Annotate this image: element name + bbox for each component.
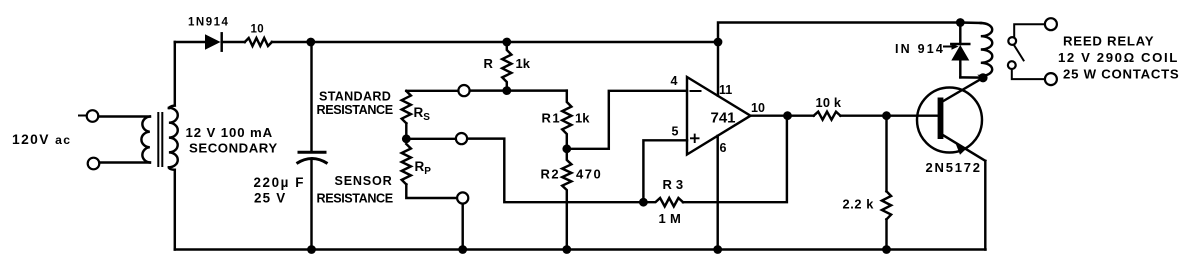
svg-text:10: 10 <box>751 101 765 115</box>
svg-text:IN 914: IN 914 <box>895 42 945 56</box>
junction output node <box>783 111 792 120</box>
transistor Q1 body circle <box>917 88 982 153</box>
svg-text:R: R <box>484 56 494 71</box>
wire capacitor bottom lead <box>310 159 312 250</box>
transformer T1 secondary winding <box>169 106 178 170</box>
arrow to diode <box>944 43 959 49</box>
junction top rail / pin11 riser <box>714 38 723 47</box>
resistor R3 1M <box>643 198 683 206</box>
wire primary bottom <box>100 161 151 163</box>
wire pin11 riser (top rail to op-amp) <box>717 42 719 96</box>
wire 2.2k top lead <box>885 116 887 192</box>
svg-text:10 k: 10 k <box>816 95 842 110</box>
wire RP bottom L to terminal <box>406 184 457 198</box>
wire op-amp output <box>751 114 814 116</box>
transistor Q1 emitter line with arrow <box>943 135 986 161</box>
capacitor C1 220uF <box>297 152 328 163</box>
resistor RP <box>402 144 411 184</box>
resistor 10 <box>245 38 272 46</box>
diode D1 1N914 <box>205 33 222 50</box>
wire left vertical bottom (secondary bottom to bottom rail) <box>174 170 176 250</box>
svg-text:4: 4 <box>671 74 678 88</box>
reed switch blade <box>1014 45 1024 61</box>
resistor R2 470 <box>562 149 571 250</box>
svg-text:2.2 k: 2.2 k <box>843 197 875 212</box>
reed switch bottom contact <box>1008 61 1016 69</box>
wire emitter to bottom rail <box>984 161 986 250</box>
junction R1/R2 node <box>562 144 571 153</box>
diode D2 1N914 <box>951 23 983 78</box>
junction collector/diode/coil <box>978 73 987 82</box>
wire pin5 riser <box>643 140 687 202</box>
op-amp U1 741 <box>687 77 751 155</box>
svg-text:1N914: 1N914 <box>188 16 229 28</box>
wire bottom rail <box>175 248 986 250</box>
wire top rail segment to diode <box>175 41 205 43</box>
op-amp minus sign <box>691 90 701 92</box>
svg-text:25 W CONTACTS: 25 W CONTACTS <box>1063 67 1179 82</box>
svg-text:R1: R1 <box>542 111 562 126</box>
transformer T1 core <box>158 113 162 166</box>
wire pin6 down to bottom rail <box>716 136 718 250</box>
wire mid terminal to R3 node <box>467 139 643 203</box>
svg-text:25 V: 25 V <box>254 191 286 206</box>
junction top rail / capacitor <box>306 38 315 47</box>
svg-text:6: 6 <box>720 141 727 155</box>
wire top rail (resistor 10 to op-amp corner) <box>272 41 718 43</box>
reed switch top terminal <box>1014 18 1057 36</box>
svg-text:1k: 1k <box>575 111 590 126</box>
wire left vertical top (secondary top to top rail) <box>174 42 176 106</box>
terminal standard top <box>458 85 469 96</box>
op-amp plus sign <box>690 134 700 143</box>
resistor R 1k <box>502 42 511 91</box>
svg-text:STANDARD: STANDARD <box>319 90 391 104</box>
resistor 10k <box>814 112 841 120</box>
wire terminal bottom to bottom rail <box>461 204 463 250</box>
wire RS-top terminal to R1 top (y=90.5 rail) <box>470 89 567 91</box>
svg-text:741: 741 <box>711 110 736 127</box>
terminal sensor bottom <box>457 192 468 203</box>
svg-text:R3: R3 <box>663 177 688 192</box>
svg-text:220µ F: 220µ F <box>254 175 306 190</box>
junction 2.2k / bottom rail <box>882 245 891 254</box>
resistor R1 1k <box>562 91 571 149</box>
junction base / 2.2k <box>882 111 891 120</box>
svg-text:SECONDARY: SECONDARY <box>189 141 278 156</box>
wire RS bottom to junction <box>405 123 407 139</box>
svg-text:REED RELAY: REED RELAY <box>1063 33 1154 48</box>
junction R2 / bottom rail <box>562 245 571 254</box>
junction top rail / resistor R <box>502 38 511 47</box>
terminal input top <box>79 110 98 122</box>
svg-text:2N5172: 2N5172 <box>926 160 982 175</box>
resistor 2.2k <box>882 191 891 219</box>
resistor RS <box>402 91 411 123</box>
svg-text:11: 11 <box>719 83 732 97</box>
svg-text:120V ac: 120V ac <box>12 132 71 147</box>
junction RS/RP node <box>402 134 411 143</box>
svg-text:1 M: 1 M <box>659 211 682 226</box>
svg-text:RESISTANCE: RESISTANCE <box>317 103 393 117</box>
svg-text:1k: 1k <box>516 56 531 71</box>
svg-text:12 V 100 mA: 12 V 100 mA <box>186 125 274 140</box>
reed switch bottom terminal <box>1012 69 1057 85</box>
transistor Q1 base bar <box>938 98 944 140</box>
wire R3 to output riser <box>683 116 787 203</box>
wire capacitor top lead <box>310 42 312 152</box>
terminal input bottom <box>88 158 100 170</box>
junction sensor ground <box>458 245 467 254</box>
junction R bottom <box>502 86 511 95</box>
wire corner riser to upper rail <box>718 23 960 43</box>
svg-text:12 V 290Ω COIL: 12 V 290Ω COIL <box>1058 50 1179 65</box>
transistor Q1 collector line <box>943 78 984 102</box>
junction pin6 / bottom rail <box>713 245 722 254</box>
svg-text:R2: R2 <box>541 167 561 182</box>
svg-text:10: 10 <box>251 23 264 35</box>
wire upper rail to coil <box>960 21 981 24</box>
wire RS top to terminal (left segment) <box>406 90 458 92</box>
wire primary top <box>99 115 151 117</box>
reed switch top contact <box>1008 37 1016 45</box>
svg-text:SENSOR: SENSOR <box>335 174 393 188</box>
wire mid node to junction dot <box>411 138 456 140</box>
wire 2.2k bottom lead <box>885 219 887 249</box>
wire diode to resistor 10 <box>222 41 245 43</box>
relay coil L1 <box>981 23 992 78</box>
svg-text:470: 470 <box>576 167 602 182</box>
junction R3 / pin5 node <box>639 198 648 207</box>
transformer T1 primary winding <box>141 117 149 163</box>
svg-text:RESISTANCE: RESISTANCE <box>317 191 393 205</box>
svg-text:5: 5 <box>672 125 679 139</box>
terminal mid node <box>456 133 467 144</box>
junction diode D2 top <box>956 18 965 27</box>
wire 10k to base <box>840 114 937 116</box>
wire R1R2 node to pin4 riser <box>567 91 687 149</box>
junction capacitor / bottom rail <box>307 245 316 254</box>
